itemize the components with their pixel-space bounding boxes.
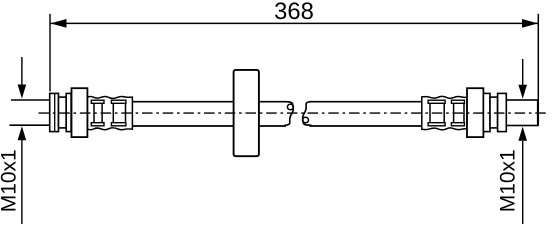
hose left segment top line bbox=[132, 101, 286, 103]
left rib group 2 column bbox=[113, 103, 125, 123]
hose left segment bottom line bbox=[132, 125, 286, 127]
right rib group 1 top bar bbox=[428, 100, 445, 103]
dimension arrowhead left bbox=[51, 19, 67, 28]
pipe break right cap stroke bbox=[303, 102, 312, 126]
right tube nipple bbox=[506, 100, 537, 126]
right washer B bbox=[498, 93, 507, 131]
extension line left bbox=[49, 14, 51, 92]
right hex nut bbox=[467, 88, 483, 137]
extension line right bbox=[537, 14, 539, 126]
left step collar bbox=[59, 97, 67, 128]
left rib group 1 bottom bar bbox=[91, 123, 104, 126]
svg-text:M10x1: M10x1 bbox=[496, 149, 519, 212]
pipe break right cap loop bbox=[303, 117, 309, 123]
svg-text:M10x1: M10x1 bbox=[0, 149, 21, 212]
dimension arrowhead right bbox=[522, 19, 538, 28]
right M10x1 arrow up bbox=[522, 141, 524, 224]
pipe break left cap stroke bbox=[285, 102, 294, 126]
dimension line 368 bbox=[50, 22, 538, 24]
right rib group 2 top bar bbox=[451, 100, 464, 103]
right step collar bbox=[490, 97, 498, 128]
left washer 1 bbox=[50, 93, 59, 131]
left M10x1 arrow down bbox=[21, 57, 23, 86]
pipe break left cap loop bbox=[287, 104, 293, 110]
left washer 1 inner line bbox=[54, 93, 56, 131]
left thread stub bottom line bbox=[10, 124, 50, 126]
left rib group 1 top bar bbox=[91, 100, 104, 103]
right washer A bbox=[483, 93, 490, 131]
left washer 2 bbox=[66, 93, 71, 131]
left rib group 1 column bbox=[94, 103, 102, 123]
hose right segment top line bbox=[310, 101, 422, 103]
right rib group 1 column bbox=[430, 103, 444, 123]
right rib group 2 column bbox=[454, 103, 464, 123]
svg-text:368: 368 bbox=[274, 0, 314, 25]
right crimp sleeve outline bbox=[422, 96, 467, 129]
left hex nut bbox=[72, 88, 88, 137]
right rib group 2 bottom bar bbox=[451, 123, 464, 126]
left M10x1 arrow up bbox=[21, 139, 23, 224]
left crimp sleeve outline bbox=[88, 96, 133, 129]
right M10x1 arrow down bbox=[522, 59, 524, 85]
left rib group 2 bottom bar bbox=[111, 123, 126, 126]
right rib group 1 bottom bar bbox=[428, 123, 445, 126]
mounting block bbox=[234, 70, 259, 156]
left thread stub top line bbox=[11, 99, 50, 101]
hose right segment bottom line bbox=[310, 125, 422, 127]
centerline bbox=[39, 112, 547, 114]
left rib group 2 top bar bbox=[111, 100, 126, 103]
